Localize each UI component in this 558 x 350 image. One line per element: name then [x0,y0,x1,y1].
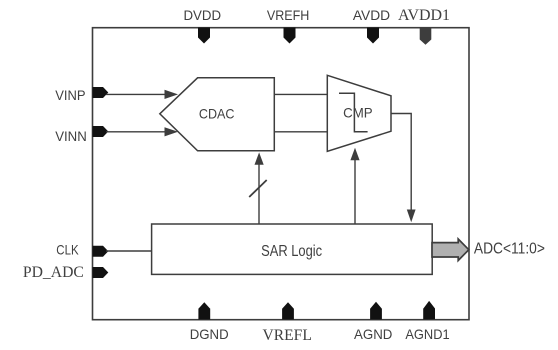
svg-text:CMP: CMP [343,106,373,121]
CMP block (trapezoid) [327,75,391,151]
chip boundary box [93,28,470,320]
pin VREFH (top) [284,28,296,44]
CDAC block (pentagon) [160,78,274,151]
wire CLK to SAR Logic [106,250,152,252]
wire SAR Logic to CDAC (bus) [258,165,260,225]
pin AVDD1 (top, dark gray) [420,28,432,45]
svg-text:CDAC: CDAC [199,107,235,122]
svg-text:ADC<11:0>: ADC<11:0> [474,240,545,257]
svg-text:VREFL: VREFL [263,325,312,344]
svg-text:VINP: VINP [55,88,85,103]
arrowhead up into CMP [350,148,359,160]
arrowhead up into CDAC [255,152,264,164]
arrowhead VINP wire [165,90,179,99]
svg-text:AGND: AGND [354,327,392,342]
SAR Logic block [152,224,433,274]
wire VINP to CDAC [106,93,168,95]
pin DVDD (top, black pentagon pointing down) [198,28,210,44]
pin DGND (bottom, pointing up) [198,302,210,319]
ADC output bus arrow (thick gray) [432,239,469,261]
svg-text:CLK: CLK [56,243,79,258]
pin AVDD (top) [367,28,379,44]
svg-text:AVDD: AVDD [353,8,390,23]
arrowhead down into SAR Logic [407,210,416,223]
pin CLK (left) [93,246,109,257]
wire CDAC to CMP upper [274,93,327,95]
pin VINN (left) [93,126,109,137]
svg-text:DVDD: DVDD [183,8,221,23]
svg-text:VINN: VINN [55,129,87,144]
pin VREFL (bottom) [282,302,294,319]
pin VINP (left, pointing right) [93,87,109,98]
pin AGND (bottom) [370,302,382,320]
svg-text:PD_ADC: PD_ADC [23,262,84,281]
wire CDAC to CMP lower [274,131,327,133]
arrowhead VINN wire [165,127,179,136]
svg-text:AVDD1: AVDD1 [398,5,450,24]
pin AGND1 (bottom) [423,301,435,320]
pin PD_ADC (left) [93,267,109,278]
svg-text:SAR Logic: SAR Logic [261,243,322,260]
svg-text:DGND: DGND [190,327,229,342]
bus slash [249,180,267,197]
wire VINN to CDAC [106,131,168,133]
wire CMP output to SAR Logic [391,114,411,211]
svg-text:AGND1: AGND1 [405,327,449,342]
wire SAR Logic to CMP [354,160,356,224]
CMP clock step symbol [339,93,368,131]
svg-text:VREFH: VREFH [267,8,310,23]
